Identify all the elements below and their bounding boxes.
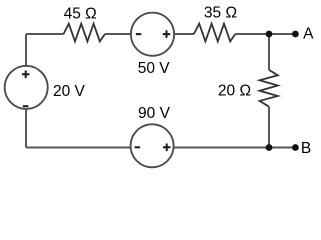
svg-text:35 Ω: 35 Ω [204,5,237,22]
wire right vertical lower [268,107,270,148]
wire resistor35 to terminal A [235,33,295,35]
resistor R 20 ohm vertical [260,70,278,107]
svg-text:B: B [301,140,311,157]
svg-text:20 V: 20 V [53,83,86,100]
wire top-left horizontal [26,33,64,35]
voltage source 90 V circle [131,124,174,167]
svg-text:45 Ω: 45 Ω [64,5,97,22]
wire source90 to terminal B [174,147,296,149]
resistor R 45 ohm [64,24,106,42]
wire resistor45 to source50 [105,33,131,35]
source 90V minus sign [135,146,141,148]
svg-text:20 Ω: 20 Ω [218,83,251,100]
svg-text:90 V: 90 V [138,105,171,122]
source 50V minus sign [136,33,142,35]
wire source50 to resistor35 [174,33,194,35]
voltage source 50 V circle [131,13,174,56]
svg-text:50 V: 50 V [138,60,171,77]
wire left vertical lower [25,109,27,148]
svg-text:A: A [303,26,314,43]
junction node top [266,31,273,38]
wire right vertical upper [268,34,270,70]
source 20V plus sign [22,71,30,79]
resistor R 35 ohm [194,24,235,42]
junction node bottom [266,144,273,151]
source 20V minus sign [23,105,29,107]
source 90V plus sign [163,144,171,152]
wire bottom-left horizontal [26,147,131,149]
source 50V plus sign [163,30,171,38]
voltage source 20 V circle [5,66,48,109]
terminal dot node B [292,144,299,151]
terminal dot node A [292,31,299,38]
wire left vertical upper [25,34,27,66]
